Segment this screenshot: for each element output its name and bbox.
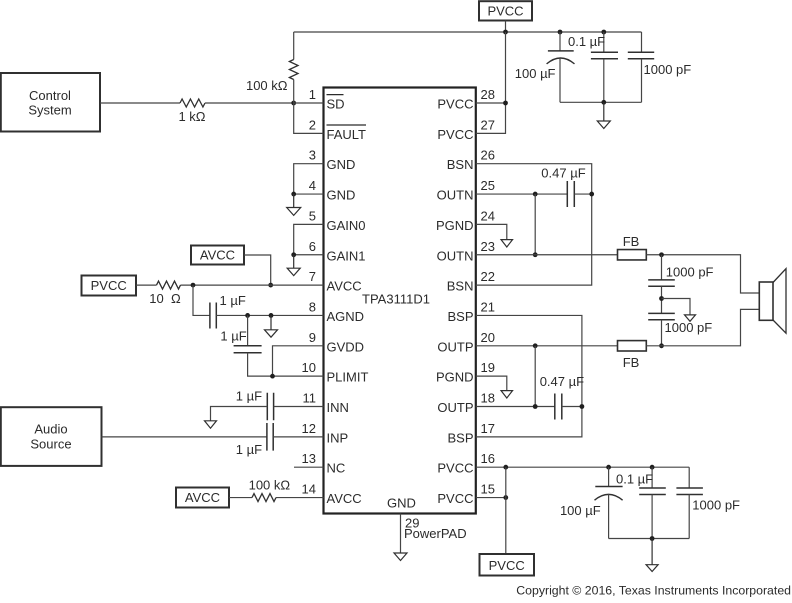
svg-text:PVCC: PVCC [487, 4, 523, 19]
capacitor 100 uF bulk top [559, 32, 561, 51]
junction 0.1uF branch bottom [650, 465, 655, 470]
wire filter node down to C AGND [193, 285, 210, 315]
wire pin 6 GAIN1 stub [294, 254, 324, 256]
wire pin 25 OUTN to cap [476, 193, 568, 195]
svg-text:PowerPAD: PowerPAD [404, 526, 467, 541]
junction AGND ground tap [269, 313, 274, 318]
junction 100uF branch [558, 30, 563, 35]
svg-text:TPA3111D1: TPA3111D1 [362, 292, 430, 307]
svg-text:13: 13 [302, 451, 316, 466]
svg-text:15: 15 [481, 482, 495, 497]
ground top decoupling [597, 102, 610, 128]
wire PVCC drop to flag [505, 467, 507, 554]
junction snubber mid [659, 296, 664, 301]
wire pin 24 PGND [476, 224, 507, 239]
svg-text:12: 12 [302, 421, 316, 436]
wire PVCC top rail [294, 31, 642, 33]
svg-text:100 µF: 100 µF [560, 503, 601, 518]
svg-text:100 µF: 100 µF [515, 66, 556, 81]
wire pin 5 GAIN0 stub [294, 224, 324, 254]
overline for FAULT (active low) [327, 124, 367, 126]
block AVCC supply flag lower [176, 488, 229, 508]
wire cap to BSP vertical [562, 406, 582, 408]
capacitor 0.47 uF BSN top [567, 181, 574, 207]
svg-text:System: System [28, 103, 71, 118]
svg-text:27: 27 [481, 117, 495, 132]
ground PowerPAD [394, 553, 407, 561]
wire pin 15 stub [476, 497, 506, 499]
svg-text:20: 20 [481, 330, 495, 345]
wire pin 29 PowerPAD stub [400, 514, 402, 554]
svg-text:BSN: BSN [447, 157, 474, 172]
svg-text:GND: GND [327, 188, 356, 203]
svg-text:28: 28 [481, 87, 495, 102]
svg-text:GVDD: GVDD [327, 339, 365, 354]
ground snubber [685, 315, 696, 321]
junction BSP at cap right [580, 404, 585, 409]
wire PVCC to R 10 [136, 284, 157, 286]
resistor 1 kOhm [180, 99, 205, 107]
svg-text:FB: FB [623, 234, 640, 249]
wire pin 18 OUTP to cap [476, 406, 555, 408]
wire pin 28 stub [476, 102, 506, 104]
svg-text:INP: INP [327, 430, 349, 445]
svg-text:OUTN: OUTN [437, 248, 474, 263]
svg-text:GAIN0: GAIN0 [327, 218, 366, 233]
block PVCC supply flag top [479, 1, 532, 20]
ground below GND pins [287, 194, 301, 215]
svg-text:PVCC: PVCC [437, 461, 473, 476]
svg-text:1: 1 [309, 87, 316, 102]
svg-text:FAULT: FAULT [327, 127, 367, 142]
wire OUTN vertical tie 25-23 [534, 194, 536, 255]
svg-text:AVCC: AVCC [185, 490, 220, 505]
wire OUTP vertical tie 20-18 [534, 346, 536, 407]
junction 100uF branch bottom [606, 465, 611, 470]
svg-text:PVCC: PVCC [437, 127, 473, 142]
junction OUTP pin 20 [533, 343, 538, 348]
capacitor 1 uF INN input [267, 393, 273, 421]
wire AVCC to R 100k [229, 497, 252, 499]
capacitor 1000 pF bottom [688, 467, 690, 488]
wire R to pin 14 AVCC [276, 497, 324, 499]
capacitor 1000 pF snubber top [661, 255, 663, 280]
ground on AGND wire [265, 315, 278, 337]
wire top decoupling ground rail [560, 101, 642, 103]
svg-text:1 µF: 1 µF [236, 442, 262, 457]
svg-text:14: 14 [302, 482, 316, 497]
svg-text:17: 17 [481, 421, 495, 436]
svg-text:AGND: AGND [327, 309, 365, 324]
svg-text:100 kΩ: 100 kΩ [249, 477, 291, 492]
junction OUTP pin 18 [533, 404, 538, 409]
wire audio source to INP cap [102, 436, 267, 438]
svg-text:23: 23 [481, 239, 495, 254]
svg-text:1000 pF: 1000 pF [644, 62, 692, 77]
svg-text:PVCC: PVCC [437, 491, 473, 506]
wire FB to speaker corner [646, 255, 759, 293]
junction bottom ground rail [650, 536, 655, 541]
svg-text:AVCC: AVCC [200, 248, 235, 263]
svg-text:24: 24 [481, 208, 495, 223]
wire GVDD cap bottom to PLIMIT [248, 353, 324, 376]
junction OUTN at cap left [533, 192, 538, 197]
svg-text:10 Ω: 10 Ω [149, 291, 181, 306]
svg-text:OUTP: OUTP [437, 339, 473, 354]
resistor 100 kOhm pull-up [293, 32, 295, 60]
wire control system to R 1k [100, 102, 180, 104]
svg-text:2: 2 [309, 117, 316, 132]
svg-text:INN: INN [327, 400, 349, 415]
op-amp U1 TPA3111D1 body [324, 88, 476, 514]
svg-text:1000 pF: 1000 pF [692, 498, 740, 513]
svg-text:10: 10 [302, 360, 316, 375]
wire PVCC flag to rail [505, 21, 507, 33]
svg-text:Audio: Audio [34, 422, 67, 437]
wire PVCC rail down to pins 28-27 [476, 32, 506, 133]
wire R 1k to pin 1 node [205, 102, 294, 104]
svg-text:0.47 µF: 0.47 µF [541, 166, 585, 181]
block Control System [1, 73, 100, 132]
junction pins 5-6 [291, 252, 296, 257]
svg-text:PLIMIT: PLIMIT [327, 370, 369, 385]
svg-text:3: 3 [309, 148, 316, 163]
svg-text:1 kΩ: 1 kΩ [178, 109, 205, 124]
svg-text:11: 11 [303, 391, 317, 406]
svg-text:AVCC: AVCC [327, 279, 362, 294]
svg-text:OUTN: OUTN [437, 188, 474, 203]
wire pin 21 BSP loop [476, 315, 582, 436]
junction PVCC rail [503, 30, 508, 35]
svg-text:6: 6 [309, 239, 316, 254]
svg-text:GND: GND [387, 496, 416, 511]
ground bottom decoupling [646, 539, 658, 572]
wire pin 4 GND stub [294, 193, 324, 195]
wire INN cap to pin 11 [274, 406, 324, 408]
wire pin 26 BSN loop [476, 164, 592, 285]
resistor 100 kOhm AVCC [252, 494, 276, 502]
ground INN input [205, 421, 217, 429]
svg-text:FB: FB [623, 355, 640, 370]
svg-text:100 kΩ: 100 kΩ [246, 78, 288, 93]
wire pin 19 PGND [476, 376, 507, 390]
svg-text:Source: Source [30, 436, 71, 451]
ground below GAIN pins [287, 255, 300, 276]
svg-text:25: 25 [481, 178, 495, 193]
svg-text:OUTP: OUTP [437, 400, 473, 415]
ground PGND pin 24 [501, 240, 513, 247]
svg-text:0.1 µF: 0.1 µF [616, 472, 653, 487]
wire pin 9 GVDD to PLIMIT net [273, 346, 324, 376]
resistor 10 Ohm [157, 281, 181, 289]
capacitor 1 uF INP input [267, 423, 273, 451]
capacitor 1000 pF top [641, 32, 643, 52]
junction top ground rail [601, 100, 606, 105]
svg-text:26: 26 [481, 148, 495, 163]
svg-text:8: 8 [309, 299, 316, 314]
svg-text:Copyright © 2016, Texas Instru: Copyright © 2016, Texas Instruments Inco… [516, 584, 791, 598]
svg-text:1000 pF: 1000 pF [665, 320, 713, 335]
wire cap to BSN vertical [574, 193, 591, 195]
node SD junction at pin 1 [291, 101, 296, 106]
wire INN cap to ground leg [211, 407, 268, 421]
wire AVCC to pin 7 net [244, 255, 271, 285]
junction snubber bottom tie [659, 343, 664, 348]
wire C to pin 8 AGND [216, 314, 323, 316]
svg-text:GND: GND [327, 157, 356, 172]
junction GVDD-PLIMIT tie [270, 374, 275, 379]
wire FB bottom to speaker corner [646, 309, 759, 345]
capacitor 0.47 uF BSP bottom [555, 394, 562, 420]
svg-text:9: 9 [309, 330, 316, 345]
svg-text:7: 7 [309, 269, 316, 284]
wire pin 20 OUTP to FB [476, 345, 618, 347]
svg-text:BSN: BSN [447, 279, 474, 294]
block PVCC supply flag bottom [480, 554, 535, 576]
svg-text:BSP: BSP [447, 430, 473, 445]
wire pin 1 stub [294, 102, 324, 104]
svg-text:1 µF: 1 µF [220, 329, 246, 344]
svg-text:PVCC: PVCC [91, 278, 127, 293]
svg-text:PGND: PGND [436, 218, 474, 233]
svg-text:BSP: BSP [447, 309, 473, 324]
svg-text:5: 5 [309, 208, 316, 223]
svg-text:1 µF: 1 µF [236, 389, 262, 404]
junction AVCC drop on pin 7 wire [268, 283, 273, 288]
svg-text:4: 4 [309, 178, 316, 193]
junction GVDD cap tap on AGND wire [245, 313, 250, 318]
svg-text:PVCC: PVCC [489, 558, 525, 573]
wire bottom decoupling ground rail [609, 538, 690, 540]
capacitor 0.1 uF bottom [651, 467, 653, 488]
junction pins 3-4 GND [291, 192, 296, 197]
block PVCC supply flag left [82, 276, 137, 296]
wire snubber mid to ground [662, 299, 691, 315]
wire pin 23 OUTN to FB [476, 254, 618, 256]
block Audio Source [1, 407, 102, 466]
svg-text:PVCC: PVCC [437, 97, 473, 112]
junction AVCC filter node [191, 283, 196, 288]
svg-text:PGND: PGND [436, 370, 474, 385]
svg-text:AVCC: AVCC [327, 491, 362, 506]
svg-text:0.47 µF: 0.47 µF [540, 374, 584, 389]
junction 0.1uF branch top [601, 30, 606, 35]
svg-text:0.1 µF: 0.1 µF [568, 34, 605, 49]
junction BSN at cap right [589, 192, 594, 197]
capacitor 0.1 uF top [603, 32, 605, 52]
svg-text:Control: Control [29, 88, 71, 103]
svg-text:19: 19 [481, 360, 495, 375]
junction pin 15 [503, 495, 508, 500]
junction pin 16 drop [503, 465, 508, 470]
ferrite bead FB top [618, 250, 647, 260]
svg-text:16: 16 [481, 451, 495, 466]
capacitor 1 uF AVCC decoupling [210, 302, 216, 328]
block AVCC supply flag upper [191, 246, 244, 265]
ground PGND pin 19 [501, 391, 513, 398]
svg-text:SD: SD [327, 97, 345, 112]
svg-text:GAIN1: GAIN1 [327, 248, 366, 263]
wire pin 16 PVCC rail [476, 466, 689, 468]
capacitor 1 uF GVDD [247, 315, 249, 345]
wire node to pin 2 FAULT [294, 103, 324, 133]
svg-text:22: 22 [481, 269, 495, 284]
svg-text:1 µF: 1 µF [220, 293, 246, 308]
svg-text:1000 pF: 1000 pF [666, 264, 714, 279]
capacitor 1000 pF snubber bottom [648, 313, 675, 319]
svg-text:18: 18 [481, 391, 495, 406]
junction snubber top [659, 252, 664, 257]
junction pin 28 [503, 101, 508, 106]
overline for SD (active low) [327, 94, 344, 96]
junction OUTN pin 23 [533, 252, 538, 257]
wire pin 13 NC stub [294, 466, 324, 468]
capacitor 100 uF bulk bottom [608, 467, 610, 486]
ferrite bead FB bottom [618, 341, 647, 351]
wire R10 to pin 7 AVCC [181, 284, 324, 286]
svg-text:21: 21 [481, 299, 495, 314]
speaker [759, 269, 786, 334]
svg-text:NC: NC [327, 461, 346, 476]
wire pin 3 GND stub [294, 164, 324, 194]
wire INP cap to pin 12 [273, 436, 323, 438]
